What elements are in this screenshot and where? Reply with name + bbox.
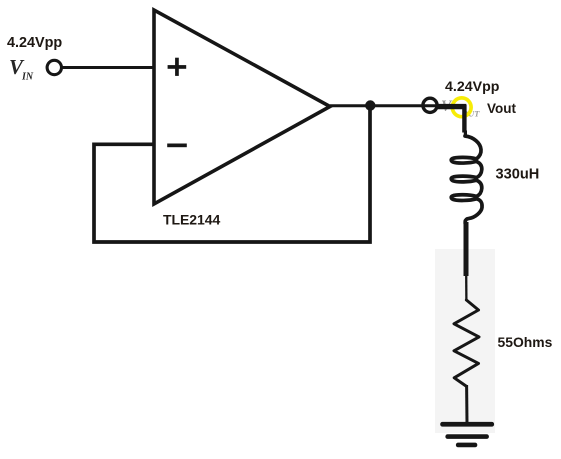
resistor R1 zigzag [454, 300, 479, 386]
op-amp plus sign [168, 58, 187, 76]
wire inductor to resistor (thick) [464, 222, 469, 276]
svg-text:55Ohms: 55Ohms [498, 334, 553, 350]
svg-text:IN: IN [21, 72, 34, 83]
op-amp minus sign [167, 144, 187, 148]
junction node dot [365, 100, 375, 110]
op-amp U1 triangle [154, 10, 330, 204]
svg-text:4.24Vpp: 4.24Vpp [7, 35, 62, 51]
inductor L1 coil [451, 136, 482, 224]
yellow highlight ring on Vout node [452, 98, 471, 117]
output terminal open circle [423, 98, 437, 112]
feedback wire loop [94, 106, 370, 242]
wire jog [464, 131, 467, 138]
svg-text:4.24Vpp: 4.24Vpp [445, 79, 500, 95]
resistor background panel [435, 249, 495, 433]
wire end over ring [438, 104, 467, 109]
wire resistor to ground [465, 385, 468, 423]
input terminal circle [47, 60, 61, 74]
svg-text:330uH: 330uH [496, 166, 540, 182]
svg-text:Vout: Vout [487, 101, 516, 116]
wire down from Vout node [462, 105, 466, 133]
svg-text:TLE2144: TLE2144 [163, 212, 220, 228]
wire thin segment [465, 275, 467, 301]
output wire [330, 104, 466, 107]
wire input to op-amp [63, 66, 156, 69]
ground symbol [440, 422, 494, 447]
